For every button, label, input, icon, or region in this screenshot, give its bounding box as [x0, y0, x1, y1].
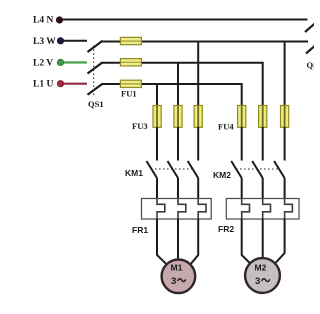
svg-text:M2: M2 — [255, 263, 267, 273]
switch QS1 pole V blade — [88, 62, 103, 73]
terminal L2 — [57, 59, 63, 65]
motor M2 — [245, 258, 280, 293]
label KM2 — [213, 170, 231, 180]
switch QS1 pole W blade — [88, 41, 103, 52]
terminal L4 — [56, 17, 62, 23]
label M2 — [255, 263, 267, 273]
label FR2 — [218, 224, 234, 234]
svg-text:L3 W: L3 W — [33, 37, 56, 47]
fuse FU1 pole W — [120, 37, 141, 44]
wire KM1 pole2 to FR1 — [177, 178, 179, 199]
switch QS1 linkage dashed — [93, 46, 95, 97]
contactor KM2 pole 1 blade — [231, 161, 242, 178]
svg-text:FU4: FU4 — [218, 122, 234, 132]
svg-text:FR1: FR1 — [132, 225, 148, 235]
label M1 3~ — [171, 276, 186, 287]
wire FR2 pole2 to motor M2 — [262, 219, 264, 258]
switch QS1 pole U blade — [88, 84, 103, 95]
thermal relay FR2 box — [226, 199, 299, 220]
wire branch M1 phase U drop — [156, 84, 158, 106]
label L1 U — [33, 80, 53, 90]
fuse FU4 pole 1 — [238, 106, 246, 128]
thermal relay FR1 heater 3 — [198, 199, 206, 219]
wire V phase after QS1 — [102, 63, 263, 106]
contactor KM1 pole 2 blade — [168, 161, 179, 178]
wire branch M2 phase W drop — [284, 42, 286, 107]
wire KM2 pole2 to FR2 — [262, 178, 264, 199]
thermal relay FR2 heater 1 — [242, 199, 250, 219]
motor M1 — [162, 260, 196, 294]
wire branch M1 phase V drop — [177, 63, 179, 106]
label QS1 — [88, 99, 104, 109]
fuse FU3 pole 3 — [194, 106, 202, 128]
fuse FU4 pole 2 — [259, 106, 267, 128]
wire FU3 pole2 to KM1 — [177, 127, 179, 161]
thermal relay FR1 heater 2 — [178, 199, 186, 219]
terminal L3 — [57, 38, 63, 44]
thermal relay FR2 heater 2 — [263, 199, 271, 219]
svg-text:FR2: FR2 — [218, 224, 234, 234]
switch QS2 pole W blade — [306, 44, 317, 54]
label L4 N — [33, 16, 53, 26]
label FR1 — [132, 225, 148, 235]
contactor KM1 pole 1 blade — [147, 161, 158, 178]
wire FU4 pole3 to KM2 — [284, 127, 286, 161]
svg-text:FU1: FU1 — [121, 89, 137, 99]
wire FR1 pole1 to motor M1 — [157, 219, 167, 264]
wire KM2 pole1 to FR2 — [241, 178, 243, 199]
wire N bus L4 — [61, 19, 308, 21]
svg-text:L4 N: L4 N — [33, 16, 53, 26]
switch QS2 pole N blade — [305, 22, 317, 32]
svg-text:KM1: KM1 — [125, 168, 143, 178]
wire KM1 pole1 to FR1 — [156, 178, 158, 199]
wire L2 V inlet segment — [62, 61, 87, 63]
svg-text:FU3: FU3 — [132, 121, 148, 131]
label L2 V — [33, 58, 53, 68]
label M1 — [171, 263, 183, 273]
contactor KM1 linkage dashed — [151, 168, 194, 170]
wire FR1 pole3 to motor M1 — [190, 219, 198, 264]
label KM1 — [125, 168, 143, 178]
thermal relay FR2 heater 3 — [285, 199, 293, 219]
wire branch M1 phase W drop — [197, 42, 199, 107]
wire FU3 pole1 to KM1 — [156, 127, 158, 161]
wire U phase after QS1 — [102, 84, 242, 106]
svg-text:3: 3 — [171, 276, 176, 287]
label QS2 (cut off) — [307, 60, 319, 70]
svg-text:QS: QS — [307, 60, 315, 70]
wire FU4 pole1 to KM2 — [241, 127, 243, 161]
svg-text:QS1: QS1 — [88, 99, 104, 109]
svg-text:M1: M1 — [171, 263, 183, 273]
svg-text:KM2: KM2 — [213, 170, 231, 180]
wire KM1 pole3 to FR1 — [197, 178, 199, 199]
thermal relay FR1 box — [142, 199, 212, 220]
fuse FU4 pole 3 — [281, 106, 289, 128]
fuse FU3 pole 2 — [174, 106, 182, 128]
label FU1 — [121, 89, 137, 99]
wire FR2 pole3 to motor M2 — [275, 219, 284, 263]
svg-text:3: 3 — [255, 276, 260, 287]
terminal L1 — [57, 81, 63, 87]
wire L3 W inlet segment — [62, 40, 87, 42]
contactor KM2 linkage dashed — [236, 168, 280, 170]
wire FR1 pole2 to motor M1 — [177, 219, 179, 260]
fuse FU1 pole V — [120, 59, 141, 66]
label L3 W — [33, 37, 56, 47]
fuse FU3 pole 1 — [153, 106, 161, 128]
label FU3 — [132, 121, 148, 131]
wire FU4 pole2 to KM2 — [262, 127, 264, 161]
wire W phase after QS1 — [102, 41, 308, 43]
wire L1 U inlet segment — [62, 83, 87, 85]
label FU4 — [218, 122, 234, 132]
contactor KM2 pole 3 blade — [274, 161, 285, 178]
wire KM2 pole3 to FR2 — [284, 178, 286, 199]
wire FU3 pole3 to KM1 — [197, 127, 199, 161]
contactor KM2 pole 2 blade — [252, 161, 263, 178]
label M2 3~ — [255, 276, 270, 287]
wire FR2 pole1 to motor M2 — [242, 219, 251, 264]
contactor KM1 pole 3 blade — [188, 161, 199, 178]
svg-text:L1 U: L1 U — [33, 80, 53, 90]
svg-text:L2 V: L2 V — [33, 58, 53, 68]
thermal relay FR1 heater 1 — [157, 199, 165, 219]
fuse FU1 pole U — [120, 80, 141, 87]
